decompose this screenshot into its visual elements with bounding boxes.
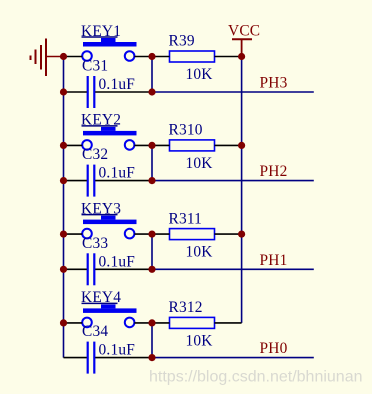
svg-text:PH3: PH3 [260, 75, 288, 92]
junction left rail / C33 [60, 266, 67, 273]
wire: left rail to KEY3 pin 1 [64, 233, 83, 235]
wire: left rail to C34 pin 1 [64, 357, 87, 359]
wire: node vertical KEY4 to C34 [151, 323, 153, 358]
wire: net PH0 horizontal [152, 357, 314, 359]
junction left rail / KEY1 [60, 53, 67, 60]
junction node KEY2 [148, 142, 155, 149]
wire: R311 pin 2 to VCC rail [215, 233, 242, 235]
capacitor C33 [82, 235, 108, 285]
junction node C33 [148, 266, 155, 273]
svg-text:R39: R39 [169, 33, 195, 50]
svg-text:C32: C32 [82, 146, 108, 163]
wire: left rail to C32 pin 1 [64, 180, 87, 182]
svg-text:C33: C33 [82, 235, 108, 252]
svg-text:R312: R312 [169, 299, 203, 316]
junction left rail / C31 [60, 88, 67, 95]
wire: node to R39 pin 1 [152, 56, 170, 58]
svg-text:R311: R311 [169, 210, 203, 227]
wire: node to R311 pin 1 [152, 233, 170, 235]
svg-text:0.1uF: 0.1uF [99, 76, 136, 93]
svg-text:https://blog.csdn.net/bhniunan: https://blog.csdn.net/bhniunan [149, 369, 363, 386]
wire: R312 pin 2 to VCC rail [215, 322, 242, 324]
switch KEY2 [81, 112, 137, 150]
switch KEY1 [81, 23, 137, 61]
svg-text:PH1: PH1 [260, 252, 288, 269]
wire: node to R310 pin 1 [152, 144, 170, 146]
wire: net PH1 horizontal [152, 268, 314, 270]
wire: C34 pin 2 to node [95, 357, 152, 359]
ground [31, 39, 64, 77]
svg-text:10K: 10K [186, 66, 213, 83]
wire: left rail to C33 pin 1 [64, 268, 87, 270]
junction left rail / KEY3 [60, 231, 67, 238]
wire: node to R312 pin 1 [152, 322, 170, 324]
junction node KEY1 [148, 53, 155, 60]
wire: KEY3 pin 2 to node [134, 233, 152, 235]
junction node C31 [148, 88, 155, 95]
svg-text:R310: R310 [169, 122, 203, 139]
wire: left ground rail vertical [63, 57, 65, 358]
wire: net PH3 horizontal [152, 91, 314, 93]
capacitor C34 [82, 323, 108, 374]
wire: left rail to KEY2 pin 1 [64, 144, 83, 146]
junction node KEY3 [148, 231, 155, 238]
wire: node vertical KEY3 to C33 [151, 234, 153, 269]
wire: C31 pin 2 to node [95, 91, 152, 93]
wire: node vertical KEY1 to C31 [151, 57, 153, 93]
svg-text:VCC: VCC [228, 23, 260, 40]
svg-text:0.1uF: 0.1uF [99, 165, 136, 182]
junction node KEY4 [148, 319, 155, 326]
junction left rail / C32 [60, 177, 67, 184]
capacitor C32 [82, 146, 108, 197]
wire: KEY2 pin 2 to node [134, 144, 152, 146]
resistor R312 [169, 299, 215, 328]
wire: net PH2 horizontal [152, 180, 314, 182]
resistor R310 [169, 122, 215, 151]
power VCC [228, 23, 260, 57]
switch KEY3 [81, 200, 137, 238]
wire: left rail to KEY4 pin 1 [64, 322, 83, 324]
wire: R39 pin 2 to VCC rail [215, 56, 242, 58]
svg-text:10K: 10K [186, 332, 213, 349]
wire: C32 pin 2 to node [95, 180, 152, 182]
junction VCC rail / R39 [238, 53, 245, 60]
wire: KEY4 pin 2 to node [134, 322, 152, 324]
svg-text:PH2: PH2 [260, 163, 288, 180]
wire: VCC rail vertical [241, 57, 243, 323]
svg-text:PH0: PH0 [260, 340, 288, 357]
capacitor C31 [82, 58, 108, 109]
wire: left rail to KEY1 pin 1 [64, 56, 83, 58]
svg-text:C34: C34 [82, 323, 108, 340]
wire: R310 pin 2 to VCC rail [215, 144, 242, 146]
resistor R39 [169, 33, 215, 62]
svg-text:10K: 10K [186, 155, 213, 172]
switch KEY4 [81, 289, 137, 327]
junction VCC rail / R310 [238, 142, 245, 149]
resistor R311 [169, 210, 215, 239]
junction node C32 [148, 177, 155, 184]
junction node C34 [148, 354, 155, 361]
svg-text:0.1uF: 0.1uF [99, 342, 136, 359]
wire: C33 pin 2 to node [95, 268, 152, 270]
wire: left rail to C31 pin 1 [64, 91, 87, 93]
wire: node vertical KEY2 to C32 [151, 145, 153, 180]
svg-text:10K: 10K [186, 244, 213, 261]
svg-text:C31: C31 [82, 58, 108, 75]
junction left rail / KEY4 [60, 319, 67, 326]
svg-text:0.1uF: 0.1uF [99, 253, 136, 270]
wire: KEY1 pin 2 to node [134, 56, 152, 58]
junction left rail / KEY2 [60, 142, 67, 149]
junction VCC rail / R311 [238, 231, 245, 238]
